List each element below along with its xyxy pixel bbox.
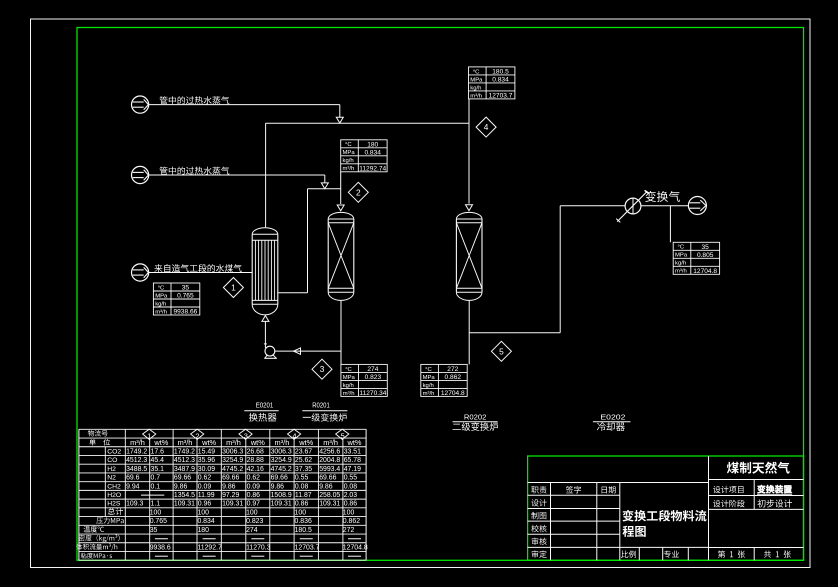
svg-text:17.6: 17.6	[150, 448, 164, 455]
converter vessel R0201 first-stage shift converter	[328, 212, 354, 300]
design project row	[713, 485, 792, 494]
svg-text:m³/h: m³/h	[343, 166, 355, 172]
svg-text:0.97: 0.97	[247, 501, 261, 508]
svg-text:°C: °C	[473, 69, 480, 75]
svg-text:0.86: 0.86	[344, 501, 358, 508]
svg-text:4512.3: 4512.3	[126, 457, 147, 464]
svg-text:9938.6: 9938.6	[150, 544, 171, 551]
svg-text:1.1: 1.1	[150, 501, 160, 508]
sheet number cells	[718, 550, 791, 558]
svg-text:42.16: 42.16	[247, 466, 264, 473]
svg-text:1: 1	[231, 282, 236, 292]
svg-text:109.31: 109.31	[222, 501, 243, 508]
table totals row	[108, 508, 355, 517]
svg-text:0.09: 0.09	[198, 483, 212, 490]
table temperature row	[84, 526, 355, 534]
svg-text:15.49: 15.49	[198, 448, 215, 455]
table pressure row	[96, 517, 360, 525]
svg-text:9.86: 9.86	[271, 483, 285, 490]
stream data table stream 4	[469, 67, 515, 100]
svg-text:9.86: 9.86	[174, 483, 188, 490]
svg-text:0.862: 0.862	[445, 374, 462, 381]
stream inlet circle water gas	[132, 264, 149, 281]
svg-text:37.35: 37.35	[295, 466, 312, 473]
stream data table stream 3	[341, 364, 387, 397]
svg-text:0.55: 0.55	[344, 475, 358, 482]
drawing frame	[77, 27, 804, 560]
svg-text:kg/h: kg/h	[343, 158, 354, 164]
svg-text:274: 274	[367, 366, 378, 373]
svg-text:3254.9: 3254.9	[271, 457, 292, 464]
svg-text:1508.9: 1508.9	[271, 492, 292, 499]
svg-text:0.55: 0.55	[295, 475, 309, 482]
svg-text:12704.8: 12704.8	[343, 544, 368, 551]
svg-text:2: 2	[195, 432, 199, 441]
svg-text:12703.7: 12703.7	[295, 544, 320, 551]
svg-text:0.834: 0.834	[492, 76, 509, 83]
svg-text:3: 3	[320, 364, 325, 374]
svg-text:9.86: 9.86	[222, 483, 236, 490]
project name	[727, 462, 790, 474]
svg-text:0.834: 0.834	[197, 518, 214, 525]
svg-text:3: 3	[244, 432, 248, 441]
svg-text:0.805: 0.805	[697, 252, 714, 259]
wire E0201 side outlet riser	[278, 189, 341, 293]
svg-text:100: 100	[343, 509, 355, 516]
svg-text:E0201: E0201	[256, 400, 274, 409]
svg-text:0.823: 0.823	[246, 518, 263, 525]
svg-text:wt%: wt%	[298, 438, 313, 447]
svg-text:11.99: 11.99	[198, 492, 215, 499]
wire E0201 top outlet to R0202	[266, 99, 473, 228]
table viscosity row	[81, 553, 361, 559]
svg-text:0.62: 0.62	[247, 475, 261, 482]
svg-text:°C: °C	[678, 245, 685, 251]
svg-text:MPa: MPa	[343, 150, 356, 156]
label steam 1	[160, 96, 230, 104]
table volume flow row	[76, 543, 368, 551]
svg-text:11.87: 11.87	[295, 492, 312, 499]
label steam 2	[160, 167, 230, 175]
svg-text:97.29: 97.29	[222, 492, 239, 499]
svg-text:180.5: 180.5	[492, 68, 509, 75]
table density row	[79, 535, 361, 543]
node stream 1 diamond	[223, 277, 243, 297]
svg-text:100: 100	[150, 509, 162, 516]
svg-text:m³/h: m³/h	[178, 438, 193, 447]
svg-text:100: 100	[197, 509, 209, 516]
node stream 5 diamond	[491, 341, 511, 361]
stream inlet circle steam 2	[132, 166, 149, 183]
svg-text:3488.5: 3488.5	[126, 466, 147, 473]
svg-text:m³/h: m³/h	[275, 438, 290, 447]
svg-text:9938.66: 9938.66	[173, 308, 197, 315]
svg-text:MPa: MPa	[343, 375, 356, 381]
drawing title text	[622, 510, 706, 537]
svg-text:4256.6: 4256.6	[319, 448, 340, 455]
svg-text:wt%: wt%	[347, 438, 362, 447]
svg-text:H2S: H2S	[107, 501, 121, 508]
svg-text:258.05: 258.05	[319, 492, 340, 499]
svg-text:MPa: MPa	[675, 253, 688, 259]
stream data table stream 1	[153, 283, 199, 316]
svg-text:12704.8: 12704.8	[693, 268, 717, 275]
svg-text:5: 5	[499, 346, 504, 356]
svg-text:m³/h: m³/h	[423, 391, 435, 397]
svg-text:69.66: 69.66	[319, 475, 336, 482]
svg-text:0.86: 0.86	[295, 501, 309, 508]
label E0201 heat exchanger	[244, 400, 278, 421]
title block header texts	[531, 486, 615, 558]
svg-text:m³/h: m³/h	[470, 93, 482, 99]
stream inlet circle steam 1	[132, 96, 149, 113]
svg-text:65.78: 65.78	[344, 457, 361, 464]
svg-text:2.03: 2.03	[344, 492, 358, 499]
svg-text:69.6: 69.6	[126, 475, 140, 482]
svg-text:N2: N2	[107, 475, 116, 482]
svg-text:0.823: 0.823	[365, 374, 382, 381]
design stage row	[713, 499, 792, 507]
svg-text:11292.7: 11292.7	[197, 544, 222, 551]
svg-text:MPa: MPa	[470, 77, 483, 83]
svg-text:0.765: 0.765	[150, 518, 167, 525]
node stream 3 diamond	[312, 359, 332, 379]
svg-text:kg/h: kg/h	[155, 301, 166, 307]
svg-text:11270.3: 11270.3	[246, 544, 271, 551]
svg-text:12704.8: 12704.8	[441, 390, 465, 397]
svg-text:m³/h: m³/h	[343, 391, 355, 397]
svg-text:109.31: 109.31	[319, 501, 340, 508]
svg-text:R0201: R0201	[312, 400, 330, 409]
svg-text:kg/h: kg/h	[470, 85, 481, 91]
svg-text:wt%: wt%	[250, 438, 265, 447]
svg-text:35.96: 35.96	[198, 457, 215, 464]
svg-text:26.68: 26.68	[247, 448, 264, 455]
label shift gas	[645, 191, 680, 202]
svg-text:272: 272	[447, 366, 458, 373]
svg-text:4: 4	[292, 432, 296, 441]
node stream 4 diamond	[476, 117, 496, 137]
svg-text:0.08: 0.08	[344, 483, 358, 490]
wire steam 2	[149, 175, 329, 189]
svg-text:33.51: 33.51	[344, 448, 361, 455]
svg-text:47.19: 47.19	[344, 466, 361, 473]
svg-text:109.3: 109.3	[126, 501, 143, 508]
stream data table stream 5	[421, 364, 467, 397]
svg-text:45.4: 45.4	[150, 457, 164, 464]
svg-text:35: 35	[150, 527, 158, 534]
svg-text:23.67: 23.67	[295, 448, 312, 455]
svg-text:0.08: 0.08	[295, 483, 309, 490]
svg-text:69.66: 69.66	[271, 475, 288, 482]
label R0202 second-stage converter	[452, 412, 498, 431]
svg-text:0.836: 0.836	[295, 518, 312, 525]
pump P1	[264, 344, 277, 358]
svg-text:180.5: 180.5	[295, 527, 312, 534]
svg-text:0.09: 0.09	[247, 483, 261, 490]
svg-text:11292.74: 11292.74	[359, 165, 386, 172]
node stream 2 diamond	[348, 182, 368, 202]
wire condensate pump loop	[262, 316, 269, 348]
wire cooler to outlet	[641, 206, 689, 243]
svg-text:1354.5: 1354.5	[174, 492, 195, 499]
svg-text:3006.3: 3006.3	[222, 448, 243, 455]
svg-text:MPa: MPa	[423, 375, 436, 381]
svg-text:wt%: wt%	[201, 438, 216, 447]
svg-text:3006.3: 3006.3	[271, 448, 292, 455]
svg-text:0.96: 0.96	[198, 501, 212, 508]
svg-text:180: 180	[367, 141, 378, 148]
svg-text:m³/h: m³/h	[226, 438, 241, 447]
wire R0201 bottom to pump	[275, 300, 341, 364]
heat exchanger E0201	[252, 228, 278, 315]
svg-text:°C: °C	[158, 285, 165, 291]
svg-text:2: 2	[356, 187, 361, 197]
svg-text:0.862: 0.862	[343, 518, 360, 525]
svg-text:9.86: 9.86	[319, 483, 333, 490]
svg-text:272: 272	[343, 527, 355, 534]
svg-text:°C: °C	[425, 367, 432, 373]
material balance table	[79, 429, 366, 560]
svg-text:3254.9: 3254.9	[222, 457, 243, 464]
label water gas	[154, 264, 241, 272]
stream data table stream 6	[673, 242, 719, 275]
svg-text:H2: H2	[107, 466, 116, 473]
svg-text:35.1: 35.1	[150, 466, 164, 473]
wire steam 1	[149, 105, 344, 123]
wire water gas to E0201	[149, 271, 252, 273]
svg-text:CO2: CO2	[107, 448, 121, 455]
title block frame	[528, 456, 804, 560]
svg-text:109.31: 109.31	[174, 501, 195, 508]
svg-text:0.834: 0.834	[364, 149, 381, 156]
svg-text:3487.9: 3487.9	[174, 466, 195, 473]
svg-text:0.86: 0.86	[247, 492, 261, 499]
svg-text:1749.2: 1749.2	[174, 448, 195, 455]
svg-text:°C: °C	[345, 367, 352, 373]
svg-text:100: 100	[295, 509, 307, 516]
svg-text:0.7: 0.7	[150, 475, 160, 482]
svg-text:69.66: 69.66	[222, 475, 239, 482]
svg-text:kg/h: kg/h	[675, 261, 686, 267]
svg-text:1749.2: 1749.2	[126, 448, 147, 455]
svg-text:180: 180	[197, 527, 209, 534]
svg-text:9.94: 9.94	[126, 483, 140, 490]
svg-text:E0202: E0202	[600, 412, 625, 421]
svg-text:CO: CO	[107, 457, 117, 464]
svg-text:0.765: 0.765	[177, 292, 194, 299]
title block grid	[528, 456, 804, 560]
svg-text:°C: °C	[345, 142, 352, 148]
stream data table stream 2	[341, 140, 387, 173]
wire feed into R0201	[337, 172, 344, 211]
svg-text:4745.2: 4745.2	[271, 466, 292, 473]
svg-text:1: 1	[147, 432, 151, 441]
svg-text:CH2: CH2	[107, 483, 121, 490]
svg-text:MPa: MPa	[155, 293, 168, 299]
label E0202 cooler	[593, 412, 631, 431]
svg-text:30.09: 30.09	[198, 466, 215, 473]
svg-text:12703.7: 12703.7	[489, 92, 513, 99]
svg-text:m³/h: m³/h	[155, 309, 167, 315]
svg-text:5: 5	[340, 432, 344, 441]
svg-text:kg/h: kg/h	[423, 383, 434, 389]
table header stream symbols	[88, 429, 349, 440]
svg-text:kg/h: kg/h	[343, 383, 354, 389]
svg-text:274: 274	[246, 527, 258, 534]
table unit row	[89, 438, 362, 447]
table component rows	[107, 448, 361, 507]
svg-text:m³/h: m³/h	[323, 438, 338, 447]
scale and discipline cells	[621, 551, 679, 558]
svg-text:4: 4	[484, 122, 489, 132]
svg-text:28.88: 28.88	[247, 457, 264, 464]
wire R0202 bottom run to cooler	[469, 206, 625, 365]
svg-text:25.62: 25.62	[295, 457, 312, 464]
svg-text:wt%: wt%	[153, 438, 168, 447]
converter vessel R0202 second-stage shift converter	[456, 212, 482, 300]
svg-text:0.62: 0.62	[198, 475, 212, 482]
svg-text:4745.2: 4745.2	[222, 466, 243, 473]
svg-text:4512.3: 4512.3	[174, 457, 195, 464]
svg-text:m³/h: m³/h	[675, 269, 687, 275]
svg-text:11270.34: 11270.34	[359, 390, 386, 397]
svg-text:R0202: R0202	[464, 412, 487, 421]
stream outlet circle shift gas	[688, 197, 706, 215]
svg-text:35: 35	[182, 284, 190, 291]
svg-text:35: 35	[702, 244, 710, 251]
svg-text:2004.8: 2004.8	[319, 457, 340, 464]
svg-text:0.1: 0.1	[150, 483, 160, 490]
svg-text:100: 100	[246, 509, 258, 516]
cooler E0202	[616, 190, 649, 222]
svg-text:5993.4: 5993.4	[319, 466, 340, 473]
svg-text:69.66: 69.66	[174, 475, 191, 482]
svg-text:H2O: H2O	[107, 492, 121, 499]
label R0201 first-stage converter	[302, 400, 347, 421]
svg-text:m³/h: m³/h	[130, 438, 145, 447]
svg-text:109.31: 109.31	[271, 501, 292, 508]
